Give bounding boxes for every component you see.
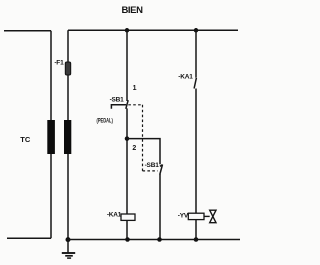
wire KA1 contact branch upper <box>195 30 197 77</box>
wire SB1 branch lower <box>126 108 128 213</box>
transformer TC winding 2 <box>64 120 71 154</box>
svg-text:TC: TC <box>20 135 31 144</box>
svg-text:-KA1: -KA1 <box>107 211 122 218</box>
wire bottom left horizontal <box>7 237 51 239</box>
wire top bus right segment <box>68 29 238 31</box>
wire SB1 branch upper <box>126 30 128 101</box>
wire YV to bottom bus <box>195 220 197 240</box>
wire mechanical linkage dashed <box>128 105 157 171</box>
svg-text:BIEN: BIEN <box>121 5 143 16</box>
svg-text:-F1: -F1 <box>54 59 64 66</box>
wire KA1 contact lower <box>195 89 197 214</box>
wire KA1 coil to bottom bus <box>126 220 128 239</box>
wire contact 2 to bottom bus <box>159 174 161 240</box>
svg-text:2: 2 <box>132 145 136 152</box>
svg-text:1: 1 <box>133 85 137 92</box>
wire fuse branch vertical <box>67 30 69 239</box>
wire left vertical L1 <box>50 31 52 239</box>
valve symbol <box>204 210 216 223</box>
ground <box>62 240 75 259</box>
wire branch to SB1 contact 2 <box>127 139 160 165</box>
svg-text:-SB1: -SB1 <box>110 96 125 103</box>
switch SB1 contact 1 <box>126 100 128 109</box>
svg-text:-YV: -YV <box>178 212 189 219</box>
wire bottom bus <box>68 239 240 241</box>
switch SB1 pedal actuator <box>111 105 126 109</box>
svg-text:-KA1: -KA1 <box>178 74 193 81</box>
node junction dot contact2 bottom <box>157 237 162 242</box>
node junction dot YV bottom <box>194 237 199 242</box>
svg-text:-SB1: -SB1 <box>145 162 160 169</box>
node junction dot top of KA1 contact branch <box>194 28 199 33</box>
svg-text:(PEDAL): (PEDAL) <box>97 119 113 125</box>
switch SB1 contact 2 <box>160 165 163 175</box>
transformer TC winding 1 <box>47 120 55 154</box>
node junction dot bottom of fuse branch <box>66 237 71 242</box>
node junction dot KA1 bottom <box>125 237 130 242</box>
node junction dot top of SB1 branch <box>125 28 130 33</box>
switch KA1 contact <box>194 78 196 89</box>
solenoid coil YV <box>188 213 204 219</box>
relay coil KA1 <box>121 214 135 220</box>
node junction dot branch to contact 2 <box>125 136 130 141</box>
fuse F1 <box>65 62 70 75</box>
wire top bus left segment <box>4 30 51 32</box>
